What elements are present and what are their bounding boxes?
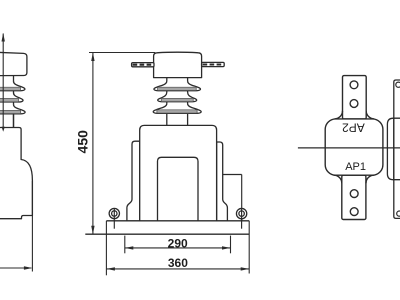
svg-text:450: 450 [75, 130, 91, 154]
svg-text:AP1: AP1 [345, 161, 366, 173]
svg-text:290: 290 [168, 237, 188, 251]
svg-text:AP2: AP2 [342, 120, 365, 134]
svg-text:360: 360 [168, 256, 188, 270]
